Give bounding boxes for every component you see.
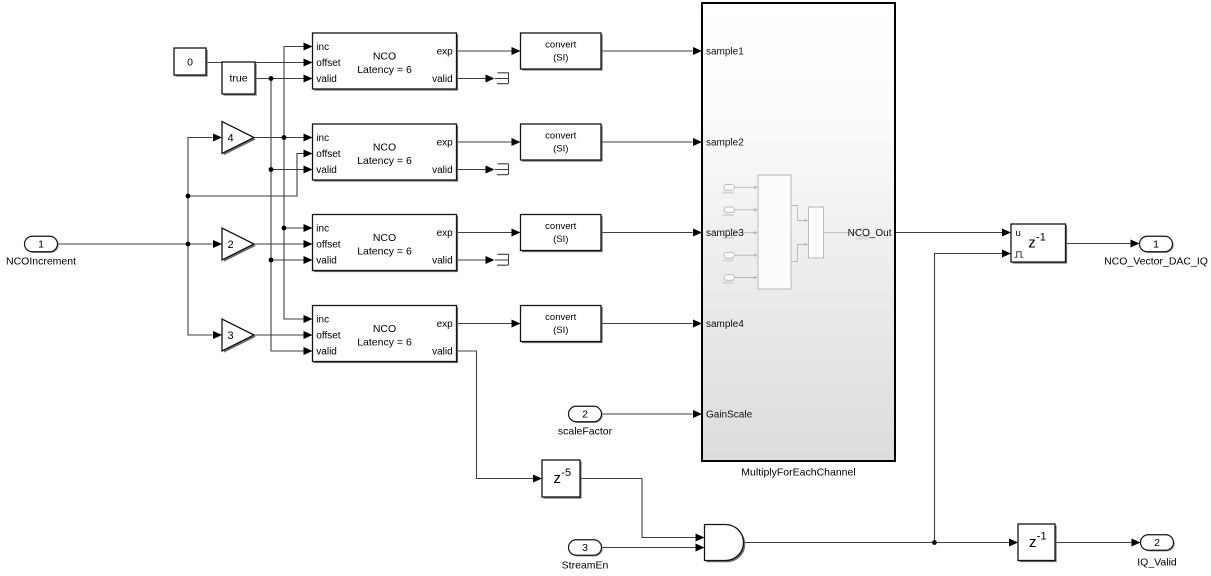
- svg-text:4: 4: [227, 133, 233, 145]
- svg-text:GainScale: GainScale: [706, 410, 753, 421]
- svg-text:NCO: NCO: [373, 323, 396, 335]
- svg-text:offset: offset: [316, 331, 340, 342]
- svg-text:(SI): (SI): [553, 325, 568, 336]
- svg-text:3: 3: [582, 542, 588, 554]
- svg-text:offset: offset: [316, 58, 340, 69]
- svg-text:NCO: NCO: [373, 141, 396, 153]
- svg-text:exp: exp: [437, 228, 454, 239]
- svg-text:0: 0: [187, 56, 193, 68]
- svg-text:valid: valid: [432, 74, 453, 85]
- svg-text:true: true: [229, 73, 247, 85]
- svg-text:Latency = 6: Latency = 6: [357, 337, 412, 349]
- svg-text:NCOIncrement: NCOIncrement: [6, 255, 76, 267]
- svg-text:2: 2: [227, 239, 233, 251]
- svg-text:sample1: sample1: [706, 47, 744, 58]
- svg-text:3: 3: [227, 330, 233, 342]
- svg-text:inc: inc: [316, 42, 329, 53]
- svg-text:offset: offset: [316, 149, 340, 160]
- svg-text:Latency = 6: Latency = 6: [357, 155, 412, 167]
- svg-text:convert: convert: [545, 221, 577, 232]
- svg-text:inc: inc: [316, 133, 329, 144]
- svg-text:NCO: NCO: [373, 50, 396, 62]
- svg-text:sample2: sample2: [706, 138, 744, 149]
- svg-text:Latency = 6: Latency = 6: [357, 64, 412, 76]
- svg-text:NCO_Vector_DAC_IQ: NCO_Vector_DAC_IQ: [1104, 255, 1208, 267]
- svg-text:sample3: sample3: [706, 228, 744, 239]
- svg-text:NCO_Out: NCO_Out: [848, 228, 892, 239]
- svg-text:valid: valid: [316, 165, 337, 176]
- svg-text:-1: -1: [1036, 231, 1046, 243]
- svg-text:valid: valid: [432, 256, 453, 267]
- svg-text:convert: convert: [545, 131, 577, 142]
- svg-text:valid: valid: [432, 165, 453, 176]
- svg-text:exp: exp: [437, 319, 454, 330]
- svg-text:sample4: sample4: [706, 319, 744, 330]
- svg-text:exp: exp: [437, 138, 454, 149]
- svg-text:inc: inc: [316, 315, 329, 326]
- svg-text:z: z: [1028, 235, 1036, 252]
- svg-text:offset: offset: [316, 240, 340, 251]
- svg-text:convert: convert: [545, 40, 577, 51]
- svg-text:-1: -1: [1037, 531, 1047, 543]
- svg-text:IQ_Valid: IQ_Valid: [1137, 556, 1177, 568]
- svg-text:-5: -5: [561, 467, 571, 479]
- svg-text:z: z: [1029, 534, 1037, 551]
- svg-text:exp: exp: [437, 47, 454, 58]
- svg-text:valid: valid: [316, 347, 337, 358]
- svg-text:valid: valid: [432, 347, 453, 358]
- svg-text:MultiplyForEachChannel: MultiplyForEachChannel: [741, 467, 855, 479]
- svg-text:1: 1: [1153, 239, 1159, 251]
- svg-text:convert: convert: [545, 312, 577, 323]
- svg-text:z: z: [554, 470, 562, 487]
- svg-text:u: u: [1016, 228, 1021, 239]
- svg-text:NCO: NCO: [373, 232, 396, 244]
- svg-text:(SI): (SI): [553, 52, 568, 63]
- svg-text:valid: valid: [316, 256, 337, 267]
- svg-text:2: 2: [1154, 537, 1160, 549]
- svg-text:(SI): (SI): [553, 143, 568, 154]
- svg-text:StreamEn: StreamEn: [562, 559, 609, 571]
- svg-text:valid: valid: [316, 74, 337, 85]
- svg-text:(SI): (SI): [553, 234, 568, 245]
- svg-text:inc: inc: [316, 224, 329, 235]
- svg-text:scaleFactor: scaleFactor: [558, 425, 613, 437]
- svg-text:2: 2: [582, 409, 588, 421]
- svg-text:Latency = 6: Latency = 6: [357, 246, 412, 258]
- svg-text:1: 1: [38, 239, 44, 251]
